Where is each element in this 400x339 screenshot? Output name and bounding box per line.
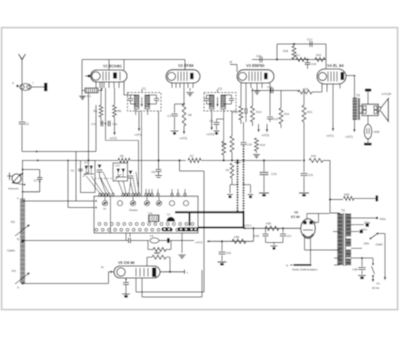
wire C14 row bbox=[251, 90, 298, 92]
capacitor C16 bbox=[259, 57, 261, 63]
switchbox left pins bbox=[95, 200, 97, 202]
svg-text:R17: R17 bbox=[295, 53, 301, 57]
tube V4 pins bbox=[321, 84, 323, 89]
IF transformer T1 box bbox=[128, 93, 162, 112]
wire mains bus bbox=[23, 240, 128, 242]
ground Rg bbox=[230, 184, 238, 186]
antenna input bar bbox=[9, 173, 11, 181]
wire grid arrow V5 bbox=[109, 271, 115, 273]
svg-text:R33: R33 bbox=[344, 193, 350, 197]
svg-text:Pu: Pu bbox=[377, 282, 381, 286]
wire node A up to V5 bbox=[108, 272, 110, 284]
resistor R22 bbox=[315, 58, 325, 62]
resistor R5 bbox=[118, 158, 130, 162]
T1 connections bbox=[135, 109, 137, 115]
tube V5 pins bbox=[125, 278, 127, 282]
svg-text:CV2: CV2 bbox=[115, 165, 120, 168]
HT3 feed arrow V2 bbox=[183, 126, 185, 134]
tube V3 EBF80 bbox=[237, 70, 274, 83]
capacitor C9 bbox=[223, 109, 225, 119]
svg-text:Ra: Ra bbox=[93, 109, 97, 113]
svg-text:+HT2: +HT2 bbox=[195, 240, 203, 244]
resistor R38 loop bbox=[146, 257, 148, 266]
node B bbox=[21, 240, 24, 243]
wire mains right vertical bbox=[384, 234, 386, 278]
wire T3 bottom to HT1 bbox=[353, 120, 355, 130]
wire vertical x76 bbox=[75, 152, 77, 202]
switchbox outline bbox=[94, 196, 198, 233]
T4 secondary heaters bbox=[346, 238, 351, 240]
svg-text:C8: C8 bbox=[151, 170, 155, 174]
T4 tap bottom1 bbox=[351, 247, 362, 249]
variable capacitor CV2 bbox=[113, 163, 128, 181]
svg-text:+HT3: +HT3 bbox=[261, 134, 269, 138]
switchbox contact row 2 bbox=[95, 228, 98, 231]
V6 anodes bbox=[303, 221, 306, 224]
switch key bar 2 bbox=[178, 227, 199, 231]
V6 grid bar bbox=[303, 229, 313, 231]
capacitor C30 bbox=[361, 258, 363, 267]
heavy bus top wire bbox=[175, 211, 245, 213]
svg-text:R9: R9 bbox=[226, 169, 230, 172]
wire vertical x157 bbox=[158, 111, 160, 169]
svg-text:R18: R18 bbox=[283, 49, 289, 53]
wire V4 cathode down bbox=[332, 89, 334, 123]
svg-text:C11: C11 bbox=[113, 123, 118, 126]
coil L3 right wire bbox=[98, 89, 102, 91]
HT2 feed arrow bbox=[114, 117, 116, 127]
svg-text:R25: R25 bbox=[311, 154, 317, 158]
coil L1 SO bbox=[20, 198, 25, 200]
capacitor C26 bbox=[265, 228, 267, 233]
V6 heater arc bbox=[304, 234, 313, 237]
wire feedback right bbox=[325, 44, 327, 60]
ground C30 bbox=[358, 275, 366, 277]
resistor R13 bbox=[252, 88, 254, 106]
resistor R1 bbox=[100, 88, 102, 105]
svg-text:Clavier: Clavier bbox=[129, 208, 138, 212]
svg-text:C30: C30 bbox=[353, 268, 359, 272]
excitation coil HP8 bbox=[367, 116, 369, 125]
capacitor C13 bbox=[269, 88, 271, 116]
capacitor C19 bbox=[263, 160, 265, 171]
svg-text:SO: SO bbox=[11, 220, 16, 224]
svg-text:EZ 80: EZ 80 bbox=[291, 215, 300, 219]
capacitor C7 bbox=[183, 88, 185, 104]
capacitor C10 bbox=[100, 121, 102, 127]
svg-text:C4: C4 bbox=[71, 170, 75, 173]
svg-text:B.1: B.1 bbox=[87, 94, 92, 98]
tube V3 pins bbox=[240, 83, 242, 88]
svg-text:T2: T2 bbox=[218, 87, 222, 91]
switchbox contact row 1 bbox=[98, 223, 101, 226]
svg-text:PO: PO bbox=[12, 269, 17, 273]
svg-text:Antenne: Antenne bbox=[8, 187, 19, 191]
svg-text:+HT1: +HT1 bbox=[345, 135, 353, 139]
resistor R7 bbox=[188, 158, 201, 162]
mains switch bbox=[372, 258, 374, 263]
T1 primary capacitor bbox=[131, 94, 136, 96]
heater wires V5 bbox=[135, 278, 137, 292]
HT1 feed arrow V4 bbox=[332, 122, 334, 131]
resistor R10 bbox=[223, 119, 225, 141]
HT3 feed arrow T1 bbox=[138, 111, 140, 131]
antenna AE bbox=[19, 54, 26, 60]
svg-text:+HT1: +HT1 bbox=[326, 134, 334, 138]
T1 secondary coil bbox=[145, 95, 150, 109]
switchbox top pin stubs bbox=[145, 189, 147, 193]
wire AGC left end bbox=[22, 159, 80, 161]
T2 primary capacitor bbox=[207, 94, 212, 96]
switch coupler arc bbox=[167, 217, 176, 222]
capacitor C4 bbox=[78, 168, 82, 170]
T4 tap 220V bbox=[351, 224, 364, 226]
svg-text:C13: C13 bbox=[273, 117, 279, 121]
V6 cathode down bbox=[304, 238, 306, 251]
capacitor C2 bbox=[22, 160, 24, 169]
resistor R21 bbox=[302, 105, 306, 122]
resistor R19 bbox=[256, 123, 258, 138]
svg-text:R21: R21 bbox=[307, 110, 313, 114]
svg-text:R38: R38 bbox=[155, 251, 161, 255]
resistor Rg pot bbox=[230, 163, 234, 178]
wire AGC bus bbox=[88, 159, 118, 161]
ground HP8 bbox=[364, 143, 372, 146]
svg-text:R11: R11 bbox=[222, 142, 227, 146]
ground C7 bbox=[171, 130, 179, 132]
wire vertical x141 bbox=[141, 111, 143, 196]
T2 secondary coil bbox=[221, 95, 226, 109]
trimmer CT1 bbox=[98, 165, 102, 169]
svg-text:C26: C26 bbox=[254, 234, 260, 238]
resistor R14 bbox=[280, 91, 282, 109]
loop antenna bbox=[12, 174, 21, 183]
svg-text:+HT3: +HT3 bbox=[134, 133, 142, 137]
svg-text:S,: S, bbox=[286, 264, 289, 268]
svg-text:A: A bbox=[12, 81, 14, 85]
svg-text:C1: C1 bbox=[25, 122, 29, 126]
svg-text:+HT1: +HT1 bbox=[244, 224, 252, 228]
wire drop to V2 grid bbox=[184, 60, 186, 70]
T4 secondary HV bbox=[346, 213, 351, 215]
svg-text:C16: C16 bbox=[256, 54, 262, 58]
ground C8 bbox=[155, 175, 162, 177]
voltage selector switch bbox=[370, 238, 372, 240]
wire AGC vertical x88 bbox=[87, 93, 89, 161]
svg-text:C14: C14 bbox=[267, 85, 273, 89]
wire drop to V1 grid bbox=[108, 60, 110, 71]
ground C25 bbox=[218, 261, 227, 263]
svg-text:Sortie d'alimentation: Sortie d'alimentation bbox=[292, 268, 318, 272]
wire vertical x82 grid return bbox=[81, 60, 83, 91]
ground R19 bbox=[253, 154, 260, 156]
svg-text:C12: C12 bbox=[235, 111, 240, 114]
resistor R33 bbox=[330, 199, 343, 201]
capacitor C18 bbox=[307, 60, 309, 63]
T1 slug arrow bbox=[141, 97, 143, 104]
svg-text:50 Hz: 50 Hz bbox=[372, 286, 380, 290]
svg-text:V1 ECH81: V1 ECH81 bbox=[103, 63, 123, 68]
wire vertical x330 bbox=[329, 160, 331, 213]
ground x248 bbox=[244, 184, 251, 186]
svg-text:F6: F6 bbox=[150, 234, 154, 238]
node A bbox=[22, 282, 24, 284]
resistor R8 bbox=[182, 104, 186, 126]
grid stub J bbox=[230, 64, 237, 66]
T1 secondary capacitor bbox=[148, 94, 157, 96]
ground under L3 bbox=[81, 90, 83, 95]
heavy bus stub in box bbox=[189, 213, 191, 226]
wire vertical x96 bbox=[95, 105, 97, 152]
svg-text:+HT3: +HT3 bbox=[179, 137, 187, 141]
wire T3 to speaker bbox=[360, 105, 362, 107]
speaker top terminal bbox=[367, 92, 369, 104]
svg-text:CV1: CV1 bbox=[84, 162, 89, 165]
tube V1 pins bbox=[95, 82, 97, 88]
svg-text:T1: T1 bbox=[142, 87, 146, 91]
svg-text:HP8: HP8 bbox=[374, 130, 380, 134]
ground under box bbox=[181, 233, 183, 253]
wire V1 anode to T1 bbox=[123, 82, 125, 95]
wire V1 pin x105 down bbox=[105, 88, 107, 140]
HT feed arrow V3 bbox=[266, 124, 268, 132]
tube V6 EZ80 bbox=[301, 219, 315, 239]
ground C19 bbox=[259, 192, 269, 194]
wire feedback top bbox=[277, 43, 326, 45]
T4 tap 110V bbox=[351, 231, 359, 233]
resistor R37 bbox=[153, 248, 166, 252]
V6 anode wires bbox=[306, 214, 308, 219]
resistor R18 vertical bbox=[292, 46, 296, 59]
svg-text:T3: T3 bbox=[356, 94, 360, 98]
svg-text:240v: 240v bbox=[380, 217, 387, 221]
T2 slug arrow bbox=[217, 97, 219, 104]
capacitor C28 bbox=[128, 238, 130, 243]
T4 tap bottom2 bbox=[351, 257, 362, 259]
resistor R16 row bbox=[298, 90, 312, 94]
switch wafer symbols row bbox=[102, 201, 107, 206]
wire heater return bbox=[201, 270, 203, 297]
speaker cone bbox=[378, 107, 381, 113]
svg-text:C7: C7 bbox=[167, 114, 171, 118]
variable capacitor CV1 bbox=[81, 161, 96, 193]
T1 primary coil bbox=[134, 95, 139, 109]
wire x302 vertical bbox=[303, 92, 305, 105]
wire link under V3 bbox=[238, 113, 258, 115]
wire coil taps to switchbox bbox=[23, 200, 94, 202]
svg-text:C27: C27 bbox=[287, 234, 293, 238]
tube V2 EF89 bbox=[166, 70, 200, 83]
wire drop x277 bbox=[276, 44, 278, 60]
resistor R35 bbox=[265, 226, 279, 230]
svg-text:R5: R5 bbox=[120, 154, 124, 158]
ground C21 bbox=[299, 192, 309, 194]
capacitor C27 bbox=[282, 228, 284, 233]
coil L3 bbox=[85, 88, 98, 93]
ground under V3 pin bbox=[256, 88, 258, 90]
speaker HP bbox=[362, 104, 378, 115]
ground V5 bbox=[122, 293, 130, 295]
gang dashed link bbox=[95, 178, 113, 180]
svg-text:R13: R13 bbox=[256, 110, 262, 114]
capacitor C11 bbox=[107, 121, 109, 127]
ground under V2 bbox=[189, 88, 191, 91]
fuse F6 bbox=[150, 238, 159, 243]
comb line 2 bbox=[243, 146, 245, 213]
capacitor C21 bbox=[303, 160, 305, 172]
HT3 feed arrow T2 bbox=[211, 109, 213, 112]
svg-text:V2 EF89: V2 EF89 bbox=[178, 63, 194, 68]
svg-text:A: A bbox=[17, 286, 19, 290]
svg-text:R16: R16 bbox=[303, 87, 309, 91]
trimmer CT2 bbox=[129, 171, 133, 175]
heavy bus vertical down bbox=[243, 211, 245, 228]
tube V2 pins bbox=[171, 83, 173, 88]
ground C26 C27 bbox=[266, 242, 284, 244]
svg-text:C17: C17 bbox=[307, 38, 313, 42]
svg-text:C25: C25 bbox=[226, 251, 232, 255]
svg-text:R22: R22 bbox=[316, 53, 322, 57]
T2 secondary capacitor bbox=[224, 94, 232, 96]
svg-text:R19: R19 bbox=[260, 143, 266, 147]
mains plug terminals bbox=[372, 276, 374, 279]
svg-text:R7: R7 bbox=[190, 154, 194, 158]
resistor R17 bbox=[296, 58, 306, 62]
svg-text:C21: C21 bbox=[308, 173, 314, 177]
wire V5 anode out bbox=[160, 271, 184, 273]
wire vertical x204 bbox=[203, 171, 205, 292]
svg-text:T.R: T.R bbox=[167, 213, 171, 216]
capacitor C17 bbox=[309, 41, 311, 47]
comb line 1 bbox=[237, 160, 239, 212]
svg-text:J2: J2 bbox=[229, 60, 233, 64]
svg-text:R14: R14 bbox=[284, 112, 290, 116]
wire bus2 bbox=[252, 59, 326, 61]
svg-text:C10: C10 bbox=[91, 123, 96, 126]
tube V1 ECH81 bbox=[91, 70, 127, 82]
capacitor C12 bbox=[245, 88, 247, 104]
svg-text:C0H: C0H bbox=[364, 242, 370, 246]
wire top bus bbox=[82, 59, 185, 61]
svg-text:T4: T4 bbox=[341, 209, 345, 213]
tube V4 EL84 bbox=[317, 69, 346, 84]
svg-text:R8: R8 bbox=[188, 113, 192, 117]
wire V4 grid2 row bbox=[326, 85, 328, 92]
resistor R12 bbox=[240, 88, 242, 106]
svg-text:C20: C20 bbox=[247, 144, 252, 147]
switch key bar 1 bbox=[162, 227, 173, 231]
T4 tap 240V bbox=[351, 217, 376, 219]
resistor R2 bbox=[114, 88, 116, 105]
svg-text:R36: R36 bbox=[234, 235, 240, 239]
switchbox top pins bbox=[99, 193, 101, 196]
wire V4 anode to T3 bbox=[346, 75, 354, 77]
lightning arrester bbox=[20, 84, 32, 91]
wire node A to V5 bbox=[23, 283, 109, 285]
svg-text:C9: C9 bbox=[209, 119, 213, 123]
svg-text:C18: C18 bbox=[311, 62, 317, 66]
wire box to mains bus bbox=[125, 233, 127, 241]
svg-text:C19: C19 bbox=[271, 172, 277, 176]
wire antenna to right bbox=[22, 151, 76, 153]
svg-text:V5 EM 80: V5 EM 80 bbox=[118, 261, 135, 265]
svg-text:A P12P: A P12P bbox=[382, 92, 392, 96]
capacitor C25 bbox=[221, 241, 223, 251]
wire bend to x204 bbox=[179, 160, 181, 171]
wire sortie bbox=[310, 238, 312, 264]
heavy bus bottom wire bbox=[198, 227, 245, 229]
svg-text:V4 EL 84: V4 EL 84 bbox=[327, 63, 344, 68]
T2 primary coil bbox=[209, 95, 214, 109]
svg-text:C2: C2 bbox=[34, 180, 38, 183]
resistor R25 bbox=[309, 158, 323, 162]
T4 left taps bbox=[333, 231, 340, 233]
svg-text:Cadre: Cadre bbox=[7, 249, 16, 253]
resistor R36 bbox=[232, 239, 246, 243]
capacitor C20 bbox=[241, 142, 247, 144]
resistor R11 bbox=[231, 111, 233, 136]
svg-text:+HT3: +HT3 bbox=[206, 133, 214, 137]
tube V5 EM80 bbox=[114, 266, 160, 278]
CV riser wires bbox=[86, 176, 100, 194]
capacitor C20b bbox=[258, 118, 260, 121]
IF transformer T2 box bbox=[204, 93, 236, 112]
wire antenna down bbox=[21, 89, 23, 121]
svg-text:B: B bbox=[17, 237, 19, 241]
svg-text:R35: R35 bbox=[266, 222, 272, 226]
svg-text:V3 EBF80: V3 EBF80 bbox=[246, 63, 265, 68]
capacitor C8 bbox=[156, 169, 162, 171]
capacitor C1 bbox=[19, 121, 25, 123]
svg-text:7,05: 7,05 bbox=[148, 212, 153, 215]
svg-text:+HT2: +HT2 bbox=[109, 137, 117, 141]
svg-text:Rb: Rb bbox=[118, 109, 122, 113]
tube V1 grid cap bbox=[85, 75, 91, 77]
svg-text:CH0F: CH0F bbox=[376, 243, 384, 247]
T4 left tap top bbox=[330, 212, 340, 214]
filament transformer in box bbox=[149, 215, 160, 222]
